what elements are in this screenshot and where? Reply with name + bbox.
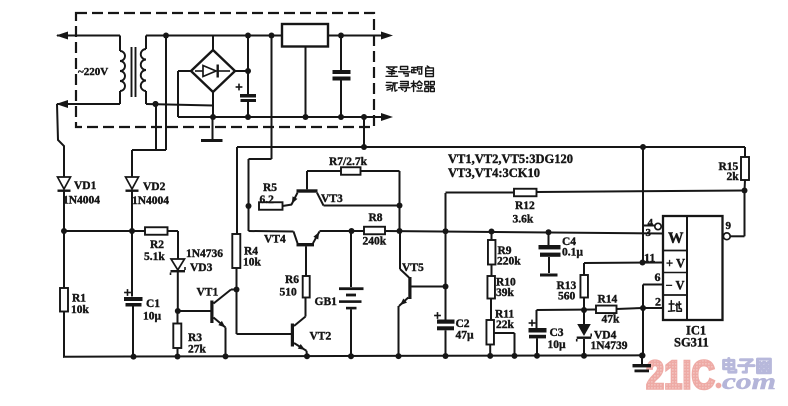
svg-text:5.1k: 5.1k [144,251,165,263]
svg-text:220k: 220k [497,256,521,268]
svg-text:2k: 2k [727,171,740,183]
svg-text:10µ: 10µ [143,311,162,323]
svg-text:R8: R8 [369,212,383,224]
svg-text:2: 2 [655,295,661,309]
svg-text:VD3: VD3 [190,262,213,274]
svg-text:240k: 240k [363,236,387,248]
svg-text:W: W [668,230,684,247]
svg-text:R2: R2 [150,239,164,251]
svg-text:+ V: + V [666,257,685,271]
svg-text:~220V: ~220V [78,66,108,78]
svg-text:R12: R12 [515,200,535,212]
svg-text:VT1,VT2,VT5:3DG120: VT1,VT2,VT5:3DG120 [448,152,573,166]
svg-text:27k: 27k [188,344,207,356]
svg-text:C1: C1 [146,298,160,310]
svg-text:VD2: VD2 [143,181,166,193]
svg-text:10k: 10k [243,257,262,269]
svg-text:1N4736: 1N4736 [186,248,223,260]
svg-text:6: 6 [655,270,661,284]
svg-text:VT3,VT4:3CK10: VT3,VT4:3CK10 [448,166,540,180]
svg-text:C2: C2 [456,318,470,330]
svg-text:R7/2.7k: R7/2.7k [329,156,368,168]
svg-text:com: com [722,369,776,394]
svg-text:VT3: VT3 [321,193,343,205]
svg-text:3: 3 [646,227,652,239]
svg-text:9: 9 [726,220,732,232]
svg-text:510: 510 [280,287,298,299]
svg-text:10k: 10k [71,304,90,316]
svg-text:VT2: VT2 [310,331,332,343]
svg-text:0.1µ: 0.1µ [562,247,583,259]
svg-text:GB1: GB1 [315,296,338,308]
svg-text:− V: − V [666,279,685,293]
svg-text:VD1: VD1 [74,180,97,192]
svg-text:47k: 47k [602,314,621,326]
svg-text:1N4004: 1N4004 [63,195,100,207]
svg-text:VT4: VT4 [264,234,286,246]
svg-text:VT1: VT1 [197,287,219,299]
svg-text:R6: R6 [285,274,299,286]
svg-text:10µ: 10µ [548,339,567,351]
svg-text:39k: 39k [496,287,515,299]
svg-text:22k: 22k [496,319,515,331]
svg-text:R14: R14 [598,294,618,306]
svg-text:6.2: 6.2 [260,194,275,206]
svg-text:R1: R1 [72,293,86,305]
svg-text:3.6k: 3.6k [513,214,534,226]
svg-text:560: 560 [558,291,576,303]
svg-text:1N4739: 1N4739 [591,340,628,352]
svg-text:1N4004: 1N4004 [132,195,169,207]
svg-text:47µ: 47µ [456,330,475,342]
svg-text:C3: C3 [550,327,564,339]
svg-text:R3: R3 [188,332,202,344]
svg-text:VT5: VT5 [402,262,424,274]
svg-text:11: 11 [644,251,655,265]
svg-text:21IC: 21IC [646,354,715,398]
svg-text:SG311: SG311 [674,336,709,350]
svg-text:R5: R5 [263,182,277,194]
